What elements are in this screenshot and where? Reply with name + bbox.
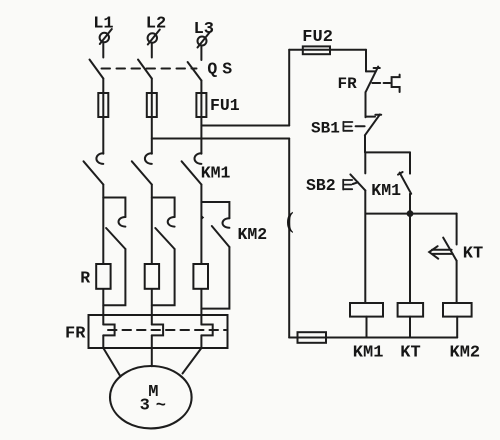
svg-text:QS: QS — [207, 59, 237, 78]
svg-text:SB1: SB1 — [311, 120, 340, 138]
svg-text:FR: FR — [65, 324, 86, 343]
svg-text:KT: KT — [400, 343, 420, 362]
svg-text:FU2: FU2 — [302, 28, 333, 47]
svg-text:L2: L2 — [146, 15, 166, 34]
svg-text:KM1: KM1 — [353, 343, 384, 362]
svg-text:FR: FR — [338, 75, 358, 93]
svg-text:R: R — [80, 269, 90, 288]
svg-text:KM2: KM2 — [238, 225, 268, 244]
svg-text:KT: KT — [463, 244, 483, 263]
svg-text:KM1: KM1 — [371, 181, 401, 200]
svg-text:(: ( — [286, 208, 294, 233]
svg-text:3~: 3~ — [140, 397, 172, 416]
svg-text:FU1: FU1 — [210, 96, 240, 115]
svg-text:KM2: KM2 — [450, 343, 481, 362]
svg-text:SB2: SB2 — [306, 176, 336, 195]
svg-text:KM1: KM1 — [201, 163, 231, 182]
svg-text:L1: L1 — [93, 14, 113, 33]
svg-text:L3: L3 — [194, 20, 214, 39]
